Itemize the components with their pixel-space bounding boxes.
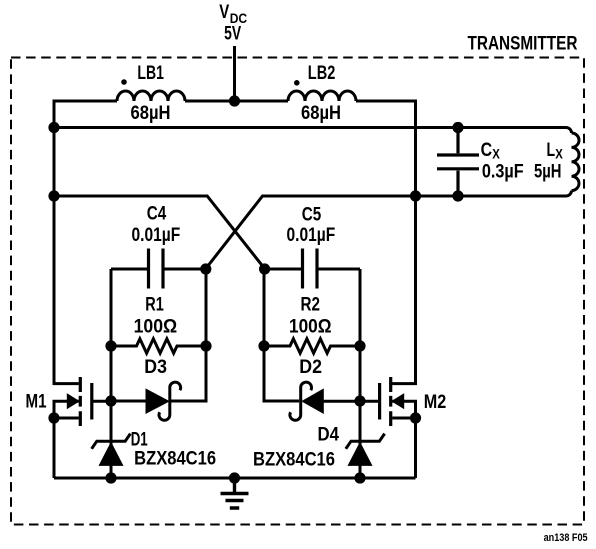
wire M1 bulk lead <box>54 401 79 418</box>
zener D4 cathode bar <box>346 434 385 449</box>
node left rail rail3 <box>48 190 59 201</box>
svg-text:C4: C4 <box>147 203 167 225</box>
wire rail3b tank bottom from Lx to diagonal to left cell top <box>206 191 572 269</box>
svg-text:R2: R2 <box>301 294 321 316</box>
transistor M1 bulk arrow <box>67 394 79 408</box>
node left rail rail2 <box>48 122 59 133</box>
svg-text:LB2: LB2 <box>308 62 336 84</box>
wire top rail between LB1 and LB2 <box>185 100 288 103</box>
node right cell top <box>259 263 270 274</box>
svg-text:TRANSMITTER: TRANSMITTER <box>468 33 578 55</box>
wire right rail from LB2 down to M2 drain <box>356 101 416 384</box>
svg-text:V: V <box>219 1 229 23</box>
svg-text:M2: M2 <box>424 391 447 413</box>
svg-text:D2: D2 <box>299 356 322 378</box>
ground symbol <box>221 478 249 508</box>
wire right cell left vertical down to D2 cathode <box>264 269 299 401</box>
resistor R1 100ohm <box>111 339 206 353</box>
wire D3 anode lead <box>111 400 146 403</box>
wire M2 source stub <box>392 417 415 420</box>
diode D2 schottky cathode <box>290 382 312 420</box>
inductor LB1 68uH <box>117 91 185 101</box>
wire left cell right vertical down to D3 cathode <box>170 269 206 401</box>
svg-text:LB1: LB1 <box>137 62 164 84</box>
svg-text:68µH: 68µH <box>301 102 341 124</box>
wire D2 anode lead <box>323 400 360 403</box>
svg-text:0.01µF: 0.01µF <box>132 224 181 246</box>
wire bottom rail <box>54 477 416 480</box>
wire M1 source stub <box>54 417 79 420</box>
inductor Lx 5uH <box>572 133 580 191</box>
svg-text:C: C <box>481 139 493 161</box>
svg-text:D3: D3 <box>144 356 167 378</box>
wire right rail M2 source to bottom rail <box>414 418 417 478</box>
node VDC junction <box>229 95 240 106</box>
node left cell top <box>200 263 211 274</box>
svg-text:0.01µF: 0.01µF <box>287 224 336 246</box>
capacitor C5 0.01uF <box>303 249 318 289</box>
svg-text:5V: 5V <box>224 22 241 44</box>
zener D1 cathode bar <box>92 434 131 449</box>
phase dot LB1 <box>121 79 127 85</box>
svg-text:100Ω: 100Ω <box>134 316 178 338</box>
transistor M1 channel <box>79 377 82 426</box>
svg-text:100Ω: 100Ω <box>289 316 332 338</box>
wire M2 gate lead <box>360 400 378 403</box>
node right rail rail3 <box>410 190 421 201</box>
svg-text:C5: C5 <box>302 203 322 225</box>
transistor M1 gate bar <box>90 383 93 420</box>
node D4 bottom <box>354 472 365 483</box>
transistor M2 gate bar <box>378 383 381 420</box>
svg-text:X: X <box>555 146 563 162</box>
resistor R2 100ohm <box>264 339 360 353</box>
wire left rail M1 source to bottom rail <box>53 418 56 478</box>
svg-text:X: X <box>492 146 500 162</box>
node R2 left <box>258 340 269 351</box>
svg-text:M1: M1 <box>26 391 47 413</box>
node R2 right <box>354 340 365 351</box>
svg-text:BZX84C16: BZX84C16 <box>253 449 335 471</box>
wire VDC supply stub <box>233 46 236 101</box>
svg-text:68µH: 68µH <box>131 102 171 124</box>
svg-text:D4: D4 <box>318 424 340 446</box>
transistor M2 bulk arrow <box>392 394 404 408</box>
node Cx bottom <box>452 190 463 201</box>
transistor M2 channel <box>389 377 392 426</box>
node Cx top <box>452 122 463 133</box>
wire right cell top rail <box>264 268 360 271</box>
svg-text:5µH: 5µH <box>534 160 562 182</box>
node M1 gate junction <box>105 395 116 406</box>
wire left cell left vertical <box>110 269 113 478</box>
node M2 gate junction <box>354 395 365 406</box>
wire left rail from M1 drain up to top rail and LB1 <box>54 101 117 384</box>
diode D3 schottky cathode <box>159 382 181 420</box>
wire left cell top rail <box>111 268 206 271</box>
diode D3 schottky triangle <box>146 389 169 413</box>
svg-text:BZX84C16: BZX84C16 <box>134 448 216 470</box>
node M2 source <box>410 412 421 423</box>
node R1 left <box>105 340 116 351</box>
svg-text:0.3µF: 0.3µF <box>482 161 524 183</box>
wire rail2 tank top from left rail to Lx <box>54 128 572 134</box>
wire M1 gate lead <box>93 400 111 403</box>
node M1 source <box>48 412 59 423</box>
wire right cell right vertical <box>359 269 362 478</box>
node ground junction <box>229 472 240 483</box>
wire M2 bulk lead <box>392 401 415 418</box>
svg-text:R1: R1 <box>145 294 164 316</box>
zener D4 triangle <box>348 443 371 466</box>
capacitor Cx 0.3uF <box>437 128 479 197</box>
capacitor C4 0.01uF <box>149 249 164 289</box>
zener D1 triangle <box>99 443 122 466</box>
diode D2 schottky triangle <box>302 389 323 413</box>
phase dot LB2 <box>294 80 300 86</box>
wire rail3a from left rail to diagonal to right cell top <box>54 196 265 269</box>
inductor LB2 68uH <box>288 91 356 101</box>
svg-text:L: L <box>547 139 556 161</box>
node R1 right <box>200 340 211 351</box>
svg-text:an138 F05: an138 F05 <box>544 532 588 544</box>
node D1 bottom <box>105 472 116 483</box>
